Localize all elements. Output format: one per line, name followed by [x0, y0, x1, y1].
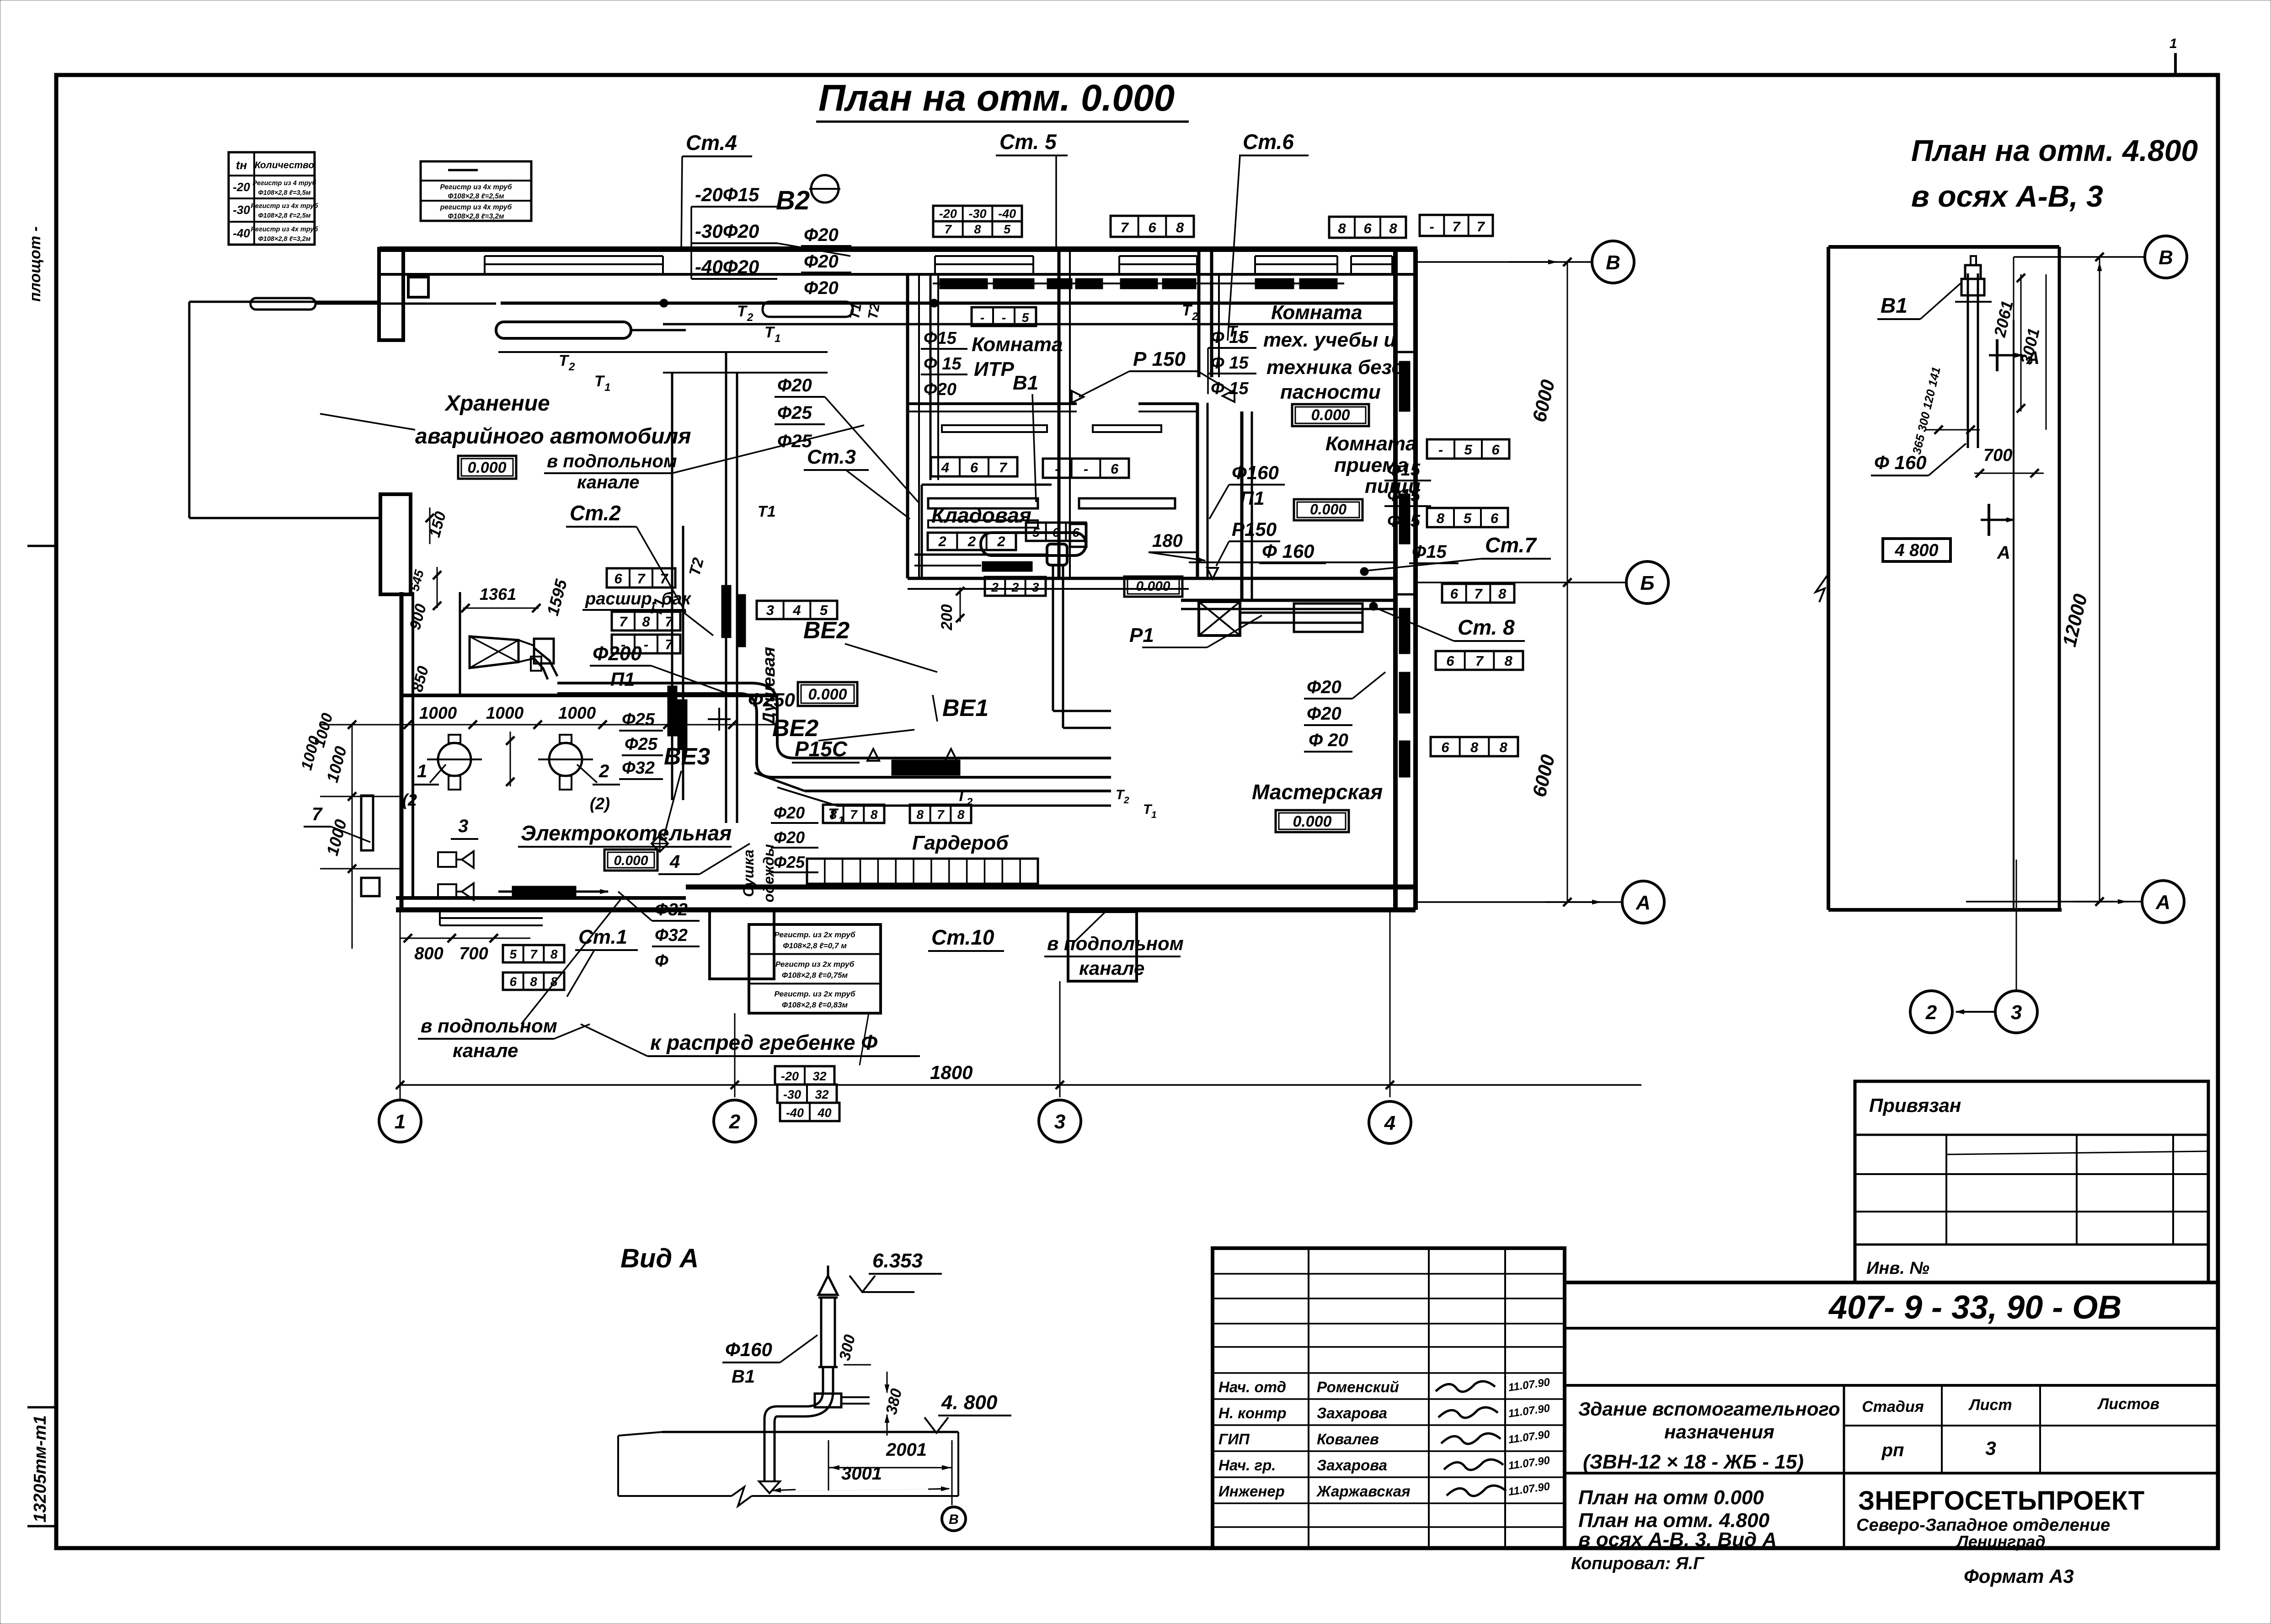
Ф200 П1 duct — [534, 648, 557, 676]
elevation box 0.000 (garage) — [458, 456, 516, 479]
svg-text:Электрокотельная: Электрокотельная — [521, 821, 732, 845]
svg-text:Ф20: Ф20 — [804, 251, 839, 272]
registr table bottom — [749, 924, 881, 1013]
svg-text:6: 6 — [1491, 442, 1500, 458]
riser at Ст.6 — [1211, 274, 1213, 377]
svg-text:7: 7 — [945, 223, 952, 236]
extension lines from building to axis line — [400, 910, 401, 1097]
svg-text:3: 3 — [2011, 1001, 2022, 1024]
svg-text:0.000: 0.000 — [1136, 579, 1170, 594]
porch right below wall — [1068, 912, 1137, 981]
svg-text:8: 8 — [974, 223, 981, 236]
axis line А — [1417, 901, 1622, 903]
4800 box — [1883, 539, 1950, 561]
elevation box 0.000 priema — [1294, 499, 1363, 520]
svg-text:7: 7 — [1452, 219, 1461, 235]
svg-text:ВЕ3: ВЕ3 — [664, 743, 710, 770]
svg-text:5: 5 — [1464, 510, 1472, 526]
svg-text:8: 8 — [642, 614, 650, 630]
svg-text:7: 7 — [312, 804, 323, 824]
box -20 32 / -30 32 / -40 40 — [775, 1066, 834, 1084]
extra pipe runs ITR — [942, 425, 1047, 432]
0.000 box left of corridor — [1124, 577, 1182, 597]
svg-text:5: 5 — [1004, 223, 1011, 236]
Привязан box — [1855, 1081, 2208, 1282]
svg-text:ВЕ2: ВЕ2 — [803, 617, 850, 644]
bottom exterior wall — [686, 885, 1416, 890]
svg-text:В: В — [2159, 246, 2173, 269]
box 8 6 8 — [1329, 217, 1406, 238]
svg-text:Ф25: Ф25 — [625, 735, 658, 754]
svg-text:-30: -30 — [968, 207, 986, 221]
boiler room dim 1000s top — [401, 724, 777, 726]
svg-text:Ф: Ф — [655, 951, 668, 971]
T2 T1 pipes lower — [805, 790, 1111, 792]
svg-text:Хранение: Хранение — [444, 391, 550, 416]
boiler room left wall — [400, 592, 404, 910]
svg-text:0.000: 0.000 — [467, 459, 506, 476]
svg-text:Регистр из 4х труб: Регистр из 4х труб — [251, 203, 318, 210]
svg-text:7: 7 — [660, 571, 668, 587]
axis bubble 1 — [400, 1097, 401, 1099]
svg-text:7: 7 — [1475, 653, 1484, 669]
svg-text:6: 6 — [614, 571, 622, 587]
left wall arrow — [1816, 574, 1828, 602]
svg-text:А: А — [1635, 892, 1651, 914]
svg-text:Инв. №: Инв. № — [1866, 1259, 1929, 1278]
svg-text:1000: 1000 — [419, 704, 457, 722]
svg-text:2: 2 — [1011, 580, 1019, 594]
svg-text:Ф20: Ф20 — [804, 278, 839, 298]
svg-text:7: 7 — [619, 614, 628, 630]
svg-text:А: А — [2155, 891, 2170, 913]
svg-text:Ф32: Ф32 — [622, 759, 655, 778]
svg-text:Т: Т — [1182, 302, 1193, 319]
column at top-left — [408, 277, 428, 297]
svg-text:-: - — [1002, 310, 1006, 325]
svg-text:Регистр из 4х труб: Регистр из 4х труб — [440, 183, 512, 191]
svg-text:1000: 1000 — [486, 704, 524, 722]
svg-text:6: 6 — [970, 459, 978, 475]
duct bars middle — [928, 498, 1038, 508]
pipe T2 main — [501, 302, 1395, 305]
svg-text:-: - — [980, 310, 984, 325]
vertical dim 6000+6000 — [1567, 262, 1568, 902]
svg-text:аварийного автомобиля: аварийного автомобиля — [415, 424, 691, 449]
svg-text:площот -: площот - — [27, 226, 44, 302]
svg-text:П1: П1 — [1240, 487, 1265, 509]
svg-text:ГИП: ГИП — [1218, 1431, 1250, 1448]
svg-text:в подпольном: в подпольном — [547, 451, 677, 471]
number boxes right side — [1427, 439, 1509, 459]
svg-text:Ф25: Ф25 — [777, 403, 812, 423]
svg-text:5: 5 — [510, 947, 517, 962]
svg-text:3: 3 — [1032, 580, 1039, 594]
svg-text:1: 1 — [775, 332, 780, 345]
svg-text:Ф20: Ф20 — [1307, 677, 1341, 697]
svg-text:1: 1 — [2169, 36, 2177, 51]
small plan walls — [1828, 245, 2059, 249]
interior partition walls — [906, 274, 909, 578]
svg-text:180: 180 — [1152, 531, 1183, 551]
+ symbol — [708, 718, 731, 720]
axis bubble 3 — [1039, 1100, 1081, 1142]
svg-text:-: - — [644, 636, 648, 652]
svg-text:2: 2 — [1925, 1001, 1937, 1024]
svg-text:Ленинград: Ленинград — [1956, 1532, 2046, 1551]
svg-text:7: 7 — [937, 807, 945, 822]
В bubble (Vid A) — [951, 1440, 953, 1505]
svg-text:расшир. бак: расшир. бак — [585, 589, 691, 609]
svg-text:План на отм. 4.800: План на отм. 4.800 — [1911, 134, 2198, 167]
svg-text:-40: -40 — [786, 1106, 804, 1120]
bottom axis dimension line — [400, 1084, 1641, 1086]
svg-text:6: 6 — [1441, 739, 1449, 755]
svg-text:8: 8 — [1500, 739, 1508, 755]
svg-text:Лист: Лист — [1968, 1396, 2012, 1414]
table Количество (top-left) — [229, 152, 315, 245]
svg-text:Ф15: Ф15 — [1412, 542, 1447, 562]
vent B2 symbol — [811, 175, 839, 203]
leader from label to wall — [320, 414, 415, 430]
svg-text:-30Ф20: -30Ф20 — [695, 220, 759, 242]
svg-text:П1: П1 — [610, 668, 635, 690]
svg-text:Ст.3: Ст.3 — [807, 446, 856, 468]
svg-text:ЗНЕРГОСЕТЬПРОЕКТ: ЗНЕРГОСЕТЬПРОЕКТ — [1858, 1486, 2144, 1516]
svg-text:Т1: Т1 — [758, 503, 776, 520]
shelf line kladovaya — [914, 554, 1047, 556]
svg-text:Ф108×2,8 ℓ=0,7 м: Ф108×2,8 ℓ=0,7 м — [783, 941, 847, 950]
fan P1 symbol — [1199, 602, 1240, 636]
svg-text:Т: Т — [737, 303, 748, 320]
axis line Б — [1417, 582, 1626, 583]
svg-text:(ЗВН-12 × 18 - ЖБ - 15): (ЗВН-12 × 18 - ЖБ - 15) — [1583, 1451, 1804, 1473]
pipe T2 branch to boiler — [498, 351, 828, 353]
svg-text:1: 1 — [417, 761, 427, 781]
svg-text:регистр из 4х труб: регистр из 4х труб — [440, 203, 512, 211]
svg-text:Т1: Т1 — [847, 302, 865, 321]
svg-text:Комната: Комната — [1325, 433, 1416, 455]
svg-text:Ф 160: Ф 160 — [1874, 452, 1927, 473]
vent heater (tub) — [981, 533, 1086, 556]
svg-text:Ст.7: Ст.7 — [1485, 533, 1537, 557]
main building top wall — [379, 246, 1417, 252]
svg-text:Ст. 8: Ст. 8 — [1458, 615, 1515, 639]
vent chamber wall — [401, 694, 777, 697]
svg-text:Регистр. из 2х труб: Регистр. из 2х труб — [774, 930, 855, 939]
svg-text:4 800: 4 800 — [1894, 541, 1938, 560]
svg-text:Регистр из 4 труб: Регистр из 4 труб — [253, 180, 317, 187]
svg-text:Привязан: Привязан — [1869, 1095, 1961, 1116]
partition ITR / Kladovaya — [908, 402, 1077, 405]
svg-text:-40: -40 — [233, 226, 250, 240]
svg-text:Ф160: Ф160 — [725, 1339, 772, 1360]
svg-text:6.353: 6.353 — [872, 1250, 923, 1272]
svg-text:8: 8 — [530, 975, 537, 989]
svg-text:пасности: пасности — [1280, 381, 1381, 403]
svg-text:Стадия: Стадия — [1862, 1398, 1924, 1416]
svg-text:рп: рп — [1881, 1440, 1904, 1460]
wall radiators left boiler — [361, 796, 373, 850]
svg-text:7: 7 — [1474, 586, 1483, 602]
left margin ticks — [27, 545, 58, 547]
svg-text:8: 8 — [917, 807, 924, 822]
svg-text:Т: Т — [764, 324, 775, 341]
svg-text:3: 3 — [1985, 1437, 1996, 1459]
svg-text:Количество: Количество — [255, 160, 315, 171]
svg-text:техника безо-: техника безо- — [1266, 356, 1411, 379]
svg-text:В2: В2 — [776, 186, 810, 215]
svg-text:Ф20: Ф20 — [1307, 704, 1341, 724]
svg-text:Ф108×2,8 ℓ=3,2м: Ф108×2,8 ℓ=3,2м — [258, 235, 310, 243]
svg-text:Р150: Р150 — [1232, 518, 1277, 540]
svg-text:В: В — [1606, 251, 1620, 274]
svg-text:Ковалев: Ковалев — [1317, 1431, 1379, 1448]
svg-text:4. 800: 4. 800 — [941, 1391, 998, 1414]
svg-text:тех. учебы и: тех. учебы и — [1263, 329, 1396, 351]
svg-text:0.000: 0.000 — [1310, 501, 1347, 518]
svg-text:6: 6 — [510, 975, 517, 989]
svg-text:5: 5 — [1032, 525, 1040, 540]
svg-text:-: - — [1084, 461, 1088, 477]
pipe T1 main — [663, 323, 1395, 326]
svg-text:6: 6 — [1053, 525, 1060, 540]
svg-text:Кладовая: Кладовая — [931, 503, 1031, 527]
svg-text:6: 6 — [1363, 220, 1372, 236]
box - - 5 — [972, 307, 1036, 326]
svg-text:4: 4 — [669, 852, 680, 872]
svg-text:8: 8 — [1437, 510, 1445, 526]
svg-text:7: 7 — [530, 947, 538, 962]
svg-text:Ф108×2,8 ℓ=0,83м: Ф108×2,8 ℓ=0,83м — [782, 1000, 848, 1009]
svg-text:Ф20: Ф20 — [804, 225, 839, 245]
svg-text:6: 6 — [1491, 510, 1499, 526]
svg-text:700: 700 — [1983, 446, 2012, 465]
svg-text:-40: -40 — [998, 207, 1016, 221]
elevation box 0.000 masterskaya — [1276, 810, 1349, 832]
svg-text:Ф25: Ф25 — [622, 710, 655, 729]
svg-text:8: 8 — [1389, 220, 1397, 236]
svg-text:А: А — [1997, 543, 2010, 563]
svg-text:канале: канале — [1079, 957, 1144, 979]
steps below boiler room — [440, 909, 543, 911]
svg-text:6: 6 — [1072, 525, 1079, 540]
sheet header Стадия Лист Листов — [1844, 1425, 2218, 1426]
svg-text:3: 3 — [458, 816, 468, 836]
svg-text:Ф 15: Ф 15 — [1211, 353, 1249, 373]
left wall pier (below garage) — [380, 494, 411, 594]
svg-text:Вид А: Вид А — [620, 1244, 699, 1273]
svg-text:2: 2 — [1123, 795, 1129, 806]
section mark A lower — [1988, 504, 1990, 536]
svg-text:-: - — [1438, 442, 1443, 458]
svg-text:-20Ф15: -20Ф15 — [695, 184, 759, 205]
right exterior wall — [1393, 249, 1398, 910]
svg-text:2001: 2001 — [886, 1440, 927, 1460]
svg-text:200: 200 — [938, 604, 956, 631]
svg-text:В: В — [949, 1512, 959, 1527]
svg-text:Ф108×2,8 ℓ=2,5м: Ф108×2,8 ℓ=2,5м — [448, 192, 504, 200]
svg-text:6: 6 — [1450, 586, 1459, 602]
svg-text:в осях А-В, 3. Вид А: в осях А-В, 3. Вид А — [1578, 1528, 1777, 1551]
svg-text:-20: -20 — [781, 1069, 799, 1083]
svg-text:-30: -30 — [783, 1088, 801, 1101]
0.000 box boiler — [604, 849, 657, 871]
svg-text:1: 1 — [395, 1111, 406, 1133]
axis bubble 4 — [1369, 1101, 1411, 1143]
svg-text:В1: В1 — [1881, 294, 1908, 317]
kладовая room walls — [921, 485, 923, 578]
bubbles 2 and 3 below — [2016, 860, 2017, 989]
svg-text:13205тм-т1: 13205тм-т1 — [31, 1415, 50, 1522]
svg-text:32: 32 — [812, 1069, 826, 1083]
title block signature table — [1213, 1248, 1565, 1548]
svg-text:8: 8 — [830, 807, 837, 822]
riser drop at Ст.5 — [930, 274, 932, 480]
risers near ст2 — [671, 526, 673, 800]
svg-text:-30: -30 — [233, 203, 250, 217]
svg-text:8: 8 — [871, 807, 878, 822]
fan П1 left wing — [470, 636, 518, 668]
В1 riser pipe — [1967, 273, 1969, 320]
axis line В (small plan) — [2014, 256, 2144, 258]
boiler tanks — [438, 743, 471, 776]
svg-text:tн: tн — [236, 158, 247, 172]
section mark A upper — [1996, 339, 1998, 371]
svg-text:Б: Б — [1640, 572, 1654, 594]
title block right part — [1565, 1282, 2218, 1548]
svg-text:2: 2 — [598, 761, 609, 781]
top-left wall pier — [379, 249, 403, 340]
svg-text:-: - — [1055, 461, 1059, 477]
pump units — [438, 852, 456, 867]
svg-text:Листов: Листов — [2097, 1395, 2159, 1413]
svg-text:Т: Т — [956, 787, 967, 805]
svg-text:7: 7 — [850, 807, 858, 822]
svg-text:8: 8 — [1505, 653, 1513, 669]
leader diagonals bottom — [521, 898, 622, 1024]
svg-text:В1: В1 — [732, 1367, 755, 1387]
svg-text:-: - — [1430, 219, 1434, 235]
svg-text:3: 3 — [1054, 1111, 1065, 1133]
svg-text:8: 8 — [1470, 739, 1479, 755]
svg-text:1800: 1800 — [930, 1062, 973, 1083]
svg-text:1: 1 — [1151, 810, 1157, 820]
svg-text:Р15С: Р15С — [795, 737, 848, 761]
svg-text:(2): (2) — [590, 794, 610, 813]
vertical pipe from kladovaya node — [1052, 565, 1054, 711]
vent stack pipe — [818, 1276, 838, 1295]
left vertical dim chain — [352, 725, 353, 949]
svg-text:-: - — [621, 636, 625, 652]
svg-text:канале: канале — [453, 1040, 518, 1061]
svg-text:-40Ф20: -40Ф20 — [695, 256, 759, 278]
svg-text:Ф20: Ф20 — [777, 375, 812, 395]
table Регистр (2nd top table) — [421, 161, 531, 221]
svg-text:Нач. отд: Нач. отд — [1218, 1378, 1286, 1395]
svg-text:Сушка: Сушка — [740, 849, 757, 897]
svg-text:Ф 15: Ф 15 — [1211, 328, 1249, 347]
svg-text:0.000: 0.000 — [1293, 813, 1331, 830]
svg-text:700: 700 — [459, 944, 488, 963]
svg-text:3001: 3001 — [841, 1464, 882, 1484]
axis line А (small plan) — [1966, 901, 2142, 903]
svg-text:800: 800 — [414, 944, 443, 963]
svg-text:6: 6 — [1148, 219, 1156, 235]
svg-text:8: 8 — [957, 807, 965, 822]
svg-text:Ф15: Ф15 — [1387, 460, 1421, 480]
svg-text:План на отм. 0.000: План на отм. 0.000 — [818, 77, 1175, 119]
svg-text:1361: 1361 — [480, 585, 516, 604]
junction dots — [930, 299, 938, 307]
svg-text:назначения: назначения — [1664, 1421, 1774, 1442]
svg-text:-20: -20 — [939, 207, 957, 221]
svg-text:407- 9 - 33, 90 - ОВ: 407- 9 - 33, 90 - ОВ — [1828, 1289, 2121, 1326]
svg-text:0.000: 0.000 — [808, 686, 847, 703]
tee fitting — [815, 1394, 841, 1407]
svg-text:0.000: 0.000 — [1311, 406, 1350, 424]
svg-text:ИТР: ИТР — [974, 358, 1015, 380]
svg-text:Ф 160: Ф 160 — [1262, 540, 1315, 562]
svg-text:Ф32: Ф32 — [655, 900, 688, 919]
svg-text:Р1: Р1 — [1129, 624, 1154, 646]
svg-text:Роменский: Роменский — [1317, 1378, 1399, 1395]
svg-text:В1: В1 — [1013, 372, 1038, 394]
svg-text:40: 40 — [817, 1106, 831, 1120]
svg-text:Ст.6: Ст.6 — [1243, 130, 1294, 154]
roof slab section — [662, 1431, 958, 1433]
garage thin outline — [189, 301, 379, 303]
svg-text:Н. контр: Н. контр — [1218, 1405, 1286, 1421]
elevation box 0.000 tech room — [1292, 404, 1369, 426]
svg-text:Комната: Комната — [1271, 301, 1362, 324]
axis line В — [1417, 261, 1592, 263]
svg-text:5: 5 — [1022, 310, 1029, 325]
boxes 5 7 8 / 6 8 8 — [503, 945, 564, 962]
svg-text:Ст.4: Ст.4 — [686, 131, 737, 155]
expansion registers (capsules) — [251, 298, 315, 310]
svg-text:Ф160: Ф160 — [1232, 462, 1279, 483]
box - 7 7 — [1420, 215, 1493, 236]
svg-text:2: 2 — [729, 1111, 741, 1133]
svg-text:1: 1 — [604, 381, 610, 394]
svg-text:Ф25: Ф25 — [774, 853, 805, 871]
svg-text:Ф20: Ф20 — [774, 828, 805, 847]
svg-text:Ф108×2,8 ℓ=3,5м: Ф108×2,8 ℓ=3,5м — [258, 189, 310, 197]
svg-text:Регистр из 4х труб: Регистр из 4х труб — [251, 226, 318, 233]
svg-text:5: 5 — [1464, 442, 1472, 458]
svg-text:в осях А-В, 3: в осях А-В, 3 — [1911, 179, 2103, 213]
svg-text:Захарова: Захарова — [1317, 1457, 1387, 1474]
top wall windows — [485, 255, 663, 257]
svg-text:Инженер: Инженер — [1218, 1483, 1285, 1500]
small dim ticks between tanks — [510, 732, 511, 786]
svg-text:Ф 15: Ф 15 — [924, 354, 962, 374]
duct elbow down and right (Ф250) — [750, 683, 794, 758]
expansion tank callout — [607, 568, 675, 588]
svg-text:Здание вспомогательного: Здание вспомогательного — [1578, 1398, 1840, 1420]
svg-text:4: 4 — [1384, 1112, 1395, 1134]
svg-text:Ф20: Ф20 — [774, 803, 805, 822]
cloakroom bench (hatched long rect) — [807, 859, 1038, 884]
svg-text:4: 4 — [792, 602, 801, 618]
svg-text:2: 2 — [997, 534, 1005, 550]
svg-text:Ф108×2,8 ℓ=0,75м: Ф108×2,8 ℓ=0,75м — [782, 971, 848, 980]
svg-text:2: 2 — [991, 580, 999, 594]
svg-text:7: 7 — [637, 571, 646, 587]
svg-text:7: 7 — [999, 459, 1008, 475]
svg-text:5: 5 — [820, 602, 828, 618]
